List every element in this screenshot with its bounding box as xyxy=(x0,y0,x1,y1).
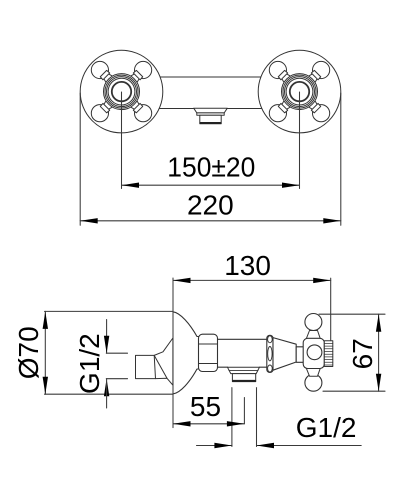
right flange (escutcheon) circle xyxy=(258,50,341,133)
arrow left of 130 xyxy=(173,278,191,283)
spout inner diagonal xyxy=(154,355,167,378)
dimension G1/2 bottom xyxy=(197,445,232,447)
spout bottom rim xyxy=(200,122,220,124)
dimension 220 line xyxy=(80,220,341,222)
stem xyxy=(296,347,304,363)
bottom neck xyxy=(306,368,320,376)
spout (front view) neck xyxy=(194,108,228,113)
wall face / extension line xyxy=(172,278,174,428)
bottom outlet flange xyxy=(228,367,260,373)
ball LR xyxy=(313,105,330,122)
svg-text:220: 220 xyxy=(187,189,234,220)
body bar xyxy=(138,77,283,109)
top ball xyxy=(305,314,322,331)
svg-text:55: 55 xyxy=(190,391,221,422)
arm UR xyxy=(305,70,322,87)
extension line right handle center xyxy=(299,92,301,189)
left handle cross xyxy=(91,61,151,121)
svg-text:67: 67 xyxy=(347,338,378,369)
extension line 130 right xyxy=(330,278,332,340)
dimension G1/2 spout xyxy=(106,320,108,354)
spout block right edge xyxy=(154,355,155,378)
ball UR xyxy=(135,61,152,78)
arm UR xyxy=(127,70,144,87)
dimension 130 line xyxy=(173,279,331,281)
arm UL xyxy=(100,70,117,87)
svg-text:150±20: 150±20 xyxy=(167,151,255,182)
arrow left of 150 xyxy=(122,183,140,188)
outlet extension lines xyxy=(231,388,233,447)
arrow right of 150 xyxy=(282,183,300,188)
bell escutcheon bottom profile xyxy=(173,369,199,394)
bottom outlet cylinder xyxy=(232,374,255,382)
hex nut xyxy=(199,334,218,371)
arm LL xyxy=(100,97,117,114)
extension line left flange edge xyxy=(79,93,81,225)
ball LL xyxy=(269,105,286,122)
knurled cap xyxy=(324,341,333,367)
svg-text:130: 130 xyxy=(224,250,271,281)
dimension Ø70 xyxy=(45,310,174,312)
arm LR xyxy=(305,97,322,114)
ball LL xyxy=(91,105,108,122)
dimension 55 xyxy=(173,423,244,425)
hub rings xyxy=(104,74,140,110)
arrow left of 220 xyxy=(80,218,98,223)
arm LR xyxy=(127,97,144,114)
ball UR xyxy=(313,61,330,78)
arm UL xyxy=(278,70,295,87)
spout outlet cylinder xyxy=(200,115,221,124)
arm LL xyxy=(278,97,295,114)
handle block xyxy=(303,338,324,368)
dimension 67 xyxy=(319,313,385,315)
dimension 150±20 line xyxy=(122,184,300,186)
bottom ball xyxy=(305,374,322,391)
body cylinder xyxy=(218,338,267,340)
nut facet lines xyxy=(199,343,218,345)
ball UL xyxy=(269,61,286,78)
arrow right of 220 xyxy=(323,218,341,223)
svg-text:Ø70: Ø70 xyxy=(13,326,44,379)
svg-text:G1/2: G1/2 xyxy=(296,412,357,443)
spout flange band xyxy=(197,113,224,115)
ring flange xyxy=(267,335,273,372)
ball LR xyxy=(135,105,152,122)
hub rings xyxy=(282,74,318,110)
wall spout cone xyxy=(136,338,173,385)
outlet bottom rim xyxy=(233,380,255,382)
bell escutcheon top profile xyxy=(173,312,199,337)
right handle cross xyxy=(269,61,329,121)
ball UL xyxy=(91,61,108,78)
arrow right of 130 xyxy=(313,278,331,283)
svg-text:G1/2: G1/2 xyxy=(74,333,105,394)
cone xyxy=(273,338,296,371)
top neck xyxy=(306,331,320,339)
handle hub circle xyxy=(307,345,322,360)
extension line left handle center xyxy=(121,92,123,189)
left flange (escutcheon) circle xyxy=(80,50,163,133)
extension line right flange edge xyxy=(340,93,342,225)
